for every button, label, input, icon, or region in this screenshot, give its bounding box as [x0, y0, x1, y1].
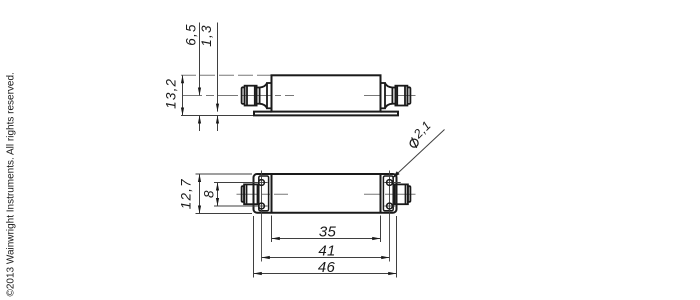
- side view: top dashed extension line: [181, 74, 271, 76]
- dimension 13,2: [182, 75, 184, 115]
- dimension 8: [214, 183, 257, 207]
- side view: center line right run: [364, 95, 416, 97]
- plan view: right hole top: [387, 180, 393, 186]
- plan view: left connector flange: [259, 176, 269, 211]
- leader line for hole diameter: [392, 130, 444, 179]
- svg-text:©2013 Wainwright Instruments.: ©2013 Wainwright Instruments. All rights…: [6, 72, 17, 296]
- plan view: center line right run: [364, 193, 416, 195]
- svg-text:46: 46: [318, 259, 336, 276]
- plan view: right connector: [395, 184, 411, 204]
- svg-text:6,5: 6,5: [184, 23, 199, 45]
- svg-text:13,2: 13,2: [163, 78, 178, 109]
- plan view: right connector flange: [383, 176, 393, 211]
- plan view: left hole bottom: [259, 203, 265, 209]
- plan view: base plate: [254, 174, 397, 213]
- side view: right connector: [381, 83, 411, 108]
- plan view: left connector: [242, 184, 258, 204]
- dimension 41: [262, 257, 390, 259]
- dimension 46: [254, 216, 397, 278]
- side view: center line left run: [183, 95, 294, 97]
- svg-text:8: 8: [202, 189, 217, 198]
- plan view: right hole bottom: [387, 203, 393, 209]
- plan view: left holes center lines: [257, 171, 268, 262]
- dimension 35: [272, 216, 381, 243]
- svg-text:12,7: 12,7: [179, 178, 194, 209]
- plan view: right holes center lines: [384, 171, 400, 262]
- side view: body outline: [272, 75, 381, 111]
- side view: bottom extension line: [181, 115, 255, 117]
- svg-text:1,3: 1,3: [199, 24, 214, 46]
- dimension 1,3: [217, 23, 219, 132]
- plan view: body right edge: [380, 174, 382, 213]
- dimension 12,7: [196, 174, 253, 214]
- plan view: left hole top: [259, 180, 265, 186]
- svg-text:35: 35: [319, 224, 337, 241]
- dimension 6,5: [199, 23, 201, 132]
- svg-text:41: 41: [318, 242, 335, 259]
- plan view: body left edge: [271, 174, 273, 213]
- plan view: center line left run: [237, 193, 289, 195]
- side view: left connector: [242, 83, 272, 108]
- label diameter 2,1: [404, 118, 435, 149]
- side view: base plate: [254, 112, 398, 116]
